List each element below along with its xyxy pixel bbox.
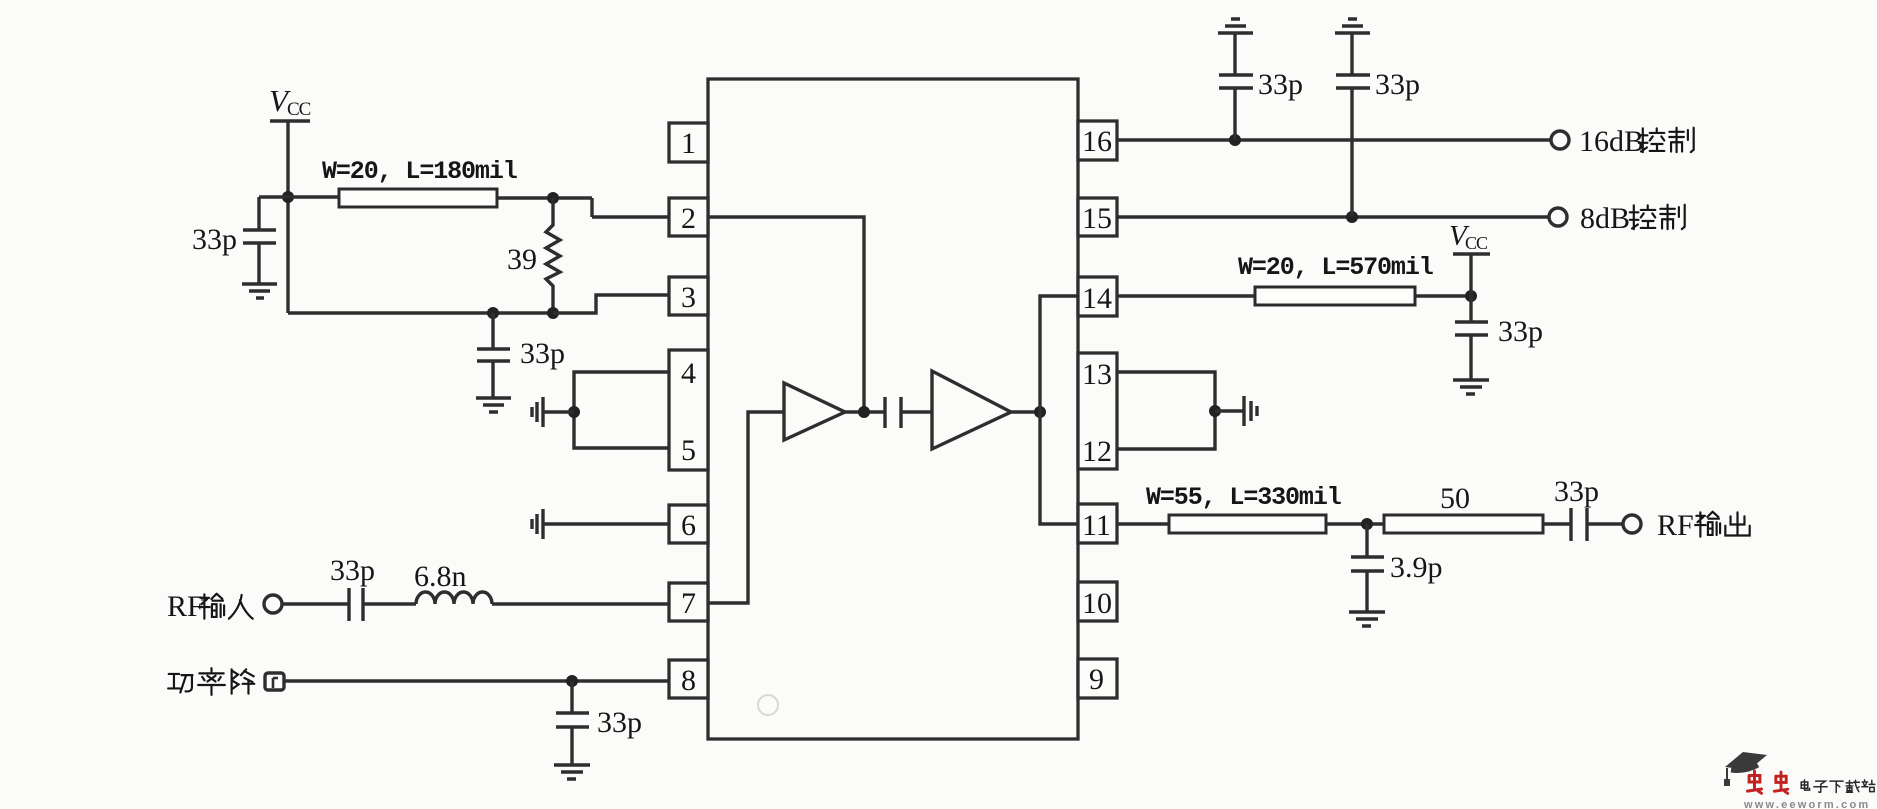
node J11 (1465, 290, 1477, 302)
wire TL2 to J11 (1415, 294, 1471, 297)
ground G1 (242, 284, 277, 298)
ground G4 (1453, 380, 1489, 394)
logo chongchong red (1747, 771, 1787, 793)
transmission line TL4 50 (1384, 482, 1543, 533)
ground G2 (476, 398, 511, 412)
capacitor coupling C5 (885, 397, 901, 428)
capacitor C9 3.9p (1351, 524, 1443, 612)
svg-text:W=20, L=570mil: W=20, L=570mil (1238, 253, 1433, 282)
svg-text:9: 9 (1089, 663, 1104, 696)
inductor L1 6.8n (414, 560, 492, 604)
ground GL2 sideways (532, 509, 543, 539)
wire power-down to pin8 (284, 679, 669, 682)
svg-text:4: 4 (681, 357, 696, 390)
node J12 (1209, 405, 1221, 417)
svg-text:2: 2 (681, 202, 696, 235)
node J1 (282, 191, 294, 203)
power VCC1 bar (270, 119, 310, 122)
svg-text:8dB: 8dB (1580, 202, 1630, 235)
wire J1 to C1 (259, 195, 288, 198)
pin 11 (1078, 504, 1117, 543)
wire terminal to C3 (282, 602, 349, 605)
wire pin6 to ground (543, 522, 669, 525)
capacitor C1 33p (192, 197, 276, 284)
pin 15 (1078, 198, 1117, 236)
wire C3 to L1 (363, 602, 416, 605)
svg-text:8: 8 (681, 664, 696, 697)
wire pin11 to TL3 (1117, 522, 1169, 525)
wire pin14 to pin11 internal (1040, 296, 1078, 524)
svg-text:RF: RF (1657, 509, 1694, 542)
transmission line TL3 W=55,L=330mil (1146, 483, 1341, 533)
svg-text:16dB: 16dB (1579, 125, 1644, 158)
ground G6 inverted (1218, 19, 1253, 33)
8dB control label (1580, 202, 1685, 235)
transmission line TL2 W=20,L=570mil (1238, 253, 1433, 305)
wire J5 to ground (543, 410, 574, 413)
wire pin4-5 loop (574, 372, 669, 448)
pin 16 (1078, 121, 1117, 160)
capacitor C2 33p (477, 313, 565, 398)
terminal RF input (264, 595, 282, 613)
svg-text:33p: 33p (1554, 475, 1599, 508)
pin 2 (669, 198, 708, 236)
capacitor C7 33p (1336, 33, 1420, 217)
svg-text:14: 14 (1082, 282, 1112, 315)
op-amp A1 (784, 383, 845, 440)
power VCC1 label (269, 83, 311, 120)
wire J12 to ground (1215, 409, 1244, 412)
node J3 (547, 307, 559, 319)
svg-text:13: 13 (1082, 358, 1112, 391)
svg-text:33p: 33p (520, 337, 565, 370)
capacitor C6 33p (1219, 33, 1303, 140)
wire TL3 to J13 (1326, 522, 1384, 525)
power-down label (168, 668, 254, 695)
svg-text:12: 12 (1082, 435, 1112, 468)
wire pin15 to terminal (1117, 215, 1549, 218)
wire VCC2 down (1469, 254, 1472, 296)
wire pin7 internal to amp1 input (708, 412, 784, 603)
svg-text:33p: 33p (192, 223, 237, 256)
svg-text:33p: 33p (597, 706, 642, 739)
svg-text:3: 3 (681, 281, 696, 314)
power VCC2 label (1449, 220, 1488, 253)
node J2 (547, 192, 559, 204)
op-amp A2 (932, 371, 1011, 449)
capacitor C8 33p (1455, 296, 1543, 380)
pin 9 (1078, 659, 1117, 698)
node amp1-out junction (858, 406, 870, 418)
wire L1 to pin7 (492, 602, 669, 605)
svg-text:1: 1 (681, 127, 696, 160)
resistor R1 39 (507, 198, 560, 313)
pin 7 (669, 583, 708, 621)
wire amp1 output (845, 410, 885, 413)
IC body U1 (708, 79, 1078, 739)
wire VCC1 rail down (286, 121, 289, 313)
svg-text:33p: 33p (1498, 315, 1543, 348)
pin 3 (669, 277, 708, 315)
logo site name (1801, 780, 1875, 793)
capacitor C3 33p series (330, 554, 375, 621)
wire C10 to terminal (1587, 522, 1623, 525)
power VCC2 bar (1453, 252, 1490, 255)
ground G7 inverted (1335, 19, 1370, 33)
scan artifact circle (758, 695, 778, 715)
svg-text:3.9p: 3.9p (1390, 551, 1443, 584)
wire pin2 internal to coupling node (708, 217, 864, 412)
wire TL4 to C10 (1543, 522, 1571, 525)
svg-text:W=55, L=330mil: W=55, L=330mil (1146, 483, 1341, 512)
wire J1 to TL1 (288, 195, 339, 198)
svg-text:16: 16 (1082, 125, 1112, 158)
wire pin13-12 loop (1117, 372, 1215, 449)
svg-text:33p: 33p (1258, 68, 1303, 101)
terminal 8dB (1549, 208, 1567, 226)
node J10 (1346, 211, 1358, 223)
wire bottom rail (288, 311, 553, 314)
wire pin14 to TL2 (1117, 294, 1255, 297)
svg-text:33p: 33p (330, 554, 375, 587)
ground G3 (554, 765, 590, 779)
wire pin16 to terminal (1117, 138, 1551, 141)
16dB control label (1579, 125, 1694, 158)
capacitor C4 33p (556, 681, 642, 765)
node J9 (1229, 134, 1241, 146)
svg-text:RF: RF (167, 590, 204, 623)
terminal power-down (265, 673, 284, 690)
ground GR1 sideways (1244, 396, 1257, 426)
node amp2-out junction (1034, 406, 1046, 418)
wire J3 to pin3 (553, 295, 669, 313)
svg-text:11: 11 (1082, 509, 1111, 542)
svg-text:39: 39 (507, 243, 537, 276)
wire amp2 output (1011, 410, 1040, 413)
svg-text:50: 50 (1440, 482, 1470, 515)
node J13 (1361, 518, 1373, 530)
svg-text:5: 5 (681, 434, 696, 467)
node J6 (566, 675, 578, 687)
wire TL1 to J2 (497, 198, 669, 217)
RF input label (167, 590, 253, 623)
svg-text:7: 7 (681, 587, 696, 620)
svg-text:33p: 33p (1375, 68, 1420, 101)
pin 4-5 block (669, 350, 708, 470)
svg-text:www.eeworm.com: www.eeworm.com (1743, 799, 1870, 809)
pin 13-12 block (1078, 353, 1117, 469)
wire cap to amp2 (901, 410, 932, 413)
svg-text:CC: CC (1465, 233, 1488, 253)
node J4 (487, 307, 499, 319)
pin 6 (669, 505, 708, 543)
svg-text:15: 15 (1082, 202, 1112, 235)
svg-text:CC: CC (287, 99, 311, 120)
node J5 (568, 406, 580, 418)
svg-text:6.8n: 6.8n (414, 560, 467, 593)
pin 8 (669, 660, 708, 698)
pin 10 (1078, 582, 1117, 621)
svg-text:W=20, L=180mil: W=20, L=180mil (322, 157, 517, 186)
terminal RF output (1623, 515, 1641, 533)
pin 1 (669, 123, 708, 162)
svg-text:6: 6 (681, 509, 696, 542)
logo graduation cap (1724, 752, 1767, 786)
pin 14 (1078, 277, 1117, 316)
RF output label (1657, 509, 1750, 542)
ground GL1 sideways (532, 397, 543, 427)
svg-text:10: 10 (1082, 587, 1112, 620)
capacitor C10 33p series (1554, 475, 1599, 541)
ground G5 (1349, 612, 1385, 626)
terminal 16dB (1551, 131, 1569, 149)
transmission line TL1 W=20,L=180mil (322, 157, 517, 207)
